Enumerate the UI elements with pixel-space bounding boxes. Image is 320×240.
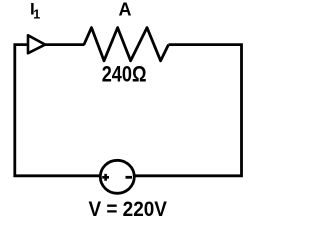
current arrow I1 (triangle) [28, 35, 45, 53]
svg-text:240Ω: 240Ω [102, 61, 147, 86]
wire: left side and bottom-left segment [15, 45, 100, 176]
svg-text:V = 220V: V = 220V [88, 197, 167, 221]
minus terminal [126, 176, 133, 179]
svg-text:A: A [119, 0, 132, 19]
voltage source V1 [100, 160, 134, 193]
svg-text:1: 1 [33, 7, 40, 21]
wire: triangle apex to resistor start [45, 43, 85, 46]
plus terminal [102, 174, 109, 181]
resistor R1 240ohm [84, 28, 169, 61]
wire: resistor end, right side and bottom-right segment [135, 45, 241, 176]
